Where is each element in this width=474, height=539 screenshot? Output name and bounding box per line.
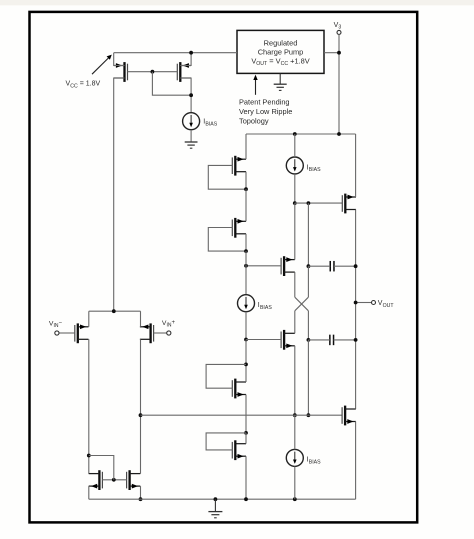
junction: mirror gate link — [112, 478, 116, 482]
junction: C2 / output rail — [354, 338, 358, 342]
wire: V3 riser down to main rail — [338, 34, 340, 134]
callout arrow (patent pending) — [253, 75, 257, 95]
label VIN+ — [162, 320, 176, 329]
svg-text:VCC = 1.8V: VCC = 1.8V — [66, 81, 101, 90]
node VIN- terminal — [55, 331, 59, 335]
wire: Q6 source up to rail — [355, 134, 357, 197]
wire: Q4 node down to I3 — [245, 251, 247, 295]
wire: Q9 source to tail — [140, 311, 142, 327]
junction: ground rail / GND3 — [214, 497, 218, 501]
node V3 terminal — [337, 30, 341, 34]
wire: Q10a drain up to node — [245, 364, 247, 382]
junction: Q7 drain / second-stage gate net — [293, 413, 297, 417]
wire: gate link to Q2 drain — [152, 72, 191, 96]
label IBIAS of I3 — [258, 302, 273, 311]
transistor Q11 (output NMOS) — [342, 406, 356, 426]
wire: Q10a source down — [245, 395, 247, 433]
svg-text:Charge Pump: Charge Pump — [258, 47, 304, 56]
wire: C2 right — [334, 339, 356, 341]
wire: main top rail — [246, 133, 356, 135]
regulated charge pump block U1 — [237, 30, 324, 73]
wire: Q11 source down to ground rail — [355, 422, 357, 500]
wire: Q10b source to ground rail — [245, 456, 247, 499]
current source I1 (IBIAS) — [183, 113, 200, 130]
transistor Q2 (bias mirror PMOS right, diode) — [177, 62, 191, 82]
wire: C2 left — [308, 339, 329, 341]
svg-text:Very Low Ripple: Very Low Ripple — [239, 107, 292, 116]
wire: charge pump output to V3 riser — [324, 52, 339, 54]
label VIN- — [49, 320, 63, 329]
junction: Q9 drain / gate net — [139, 413, 143, 417]
wire: Q3 drain down — [245, 172, 247, 190]
junction: gate line / right drop — [307, 201, 311, 205]
wire: C1 left — [308, 265, 330, 267]
wire: Q12 source to ground rail — [88, 486, 90, 499]
junction: Q13 source on ground rail — [139, 497, 143, 501]
junction: Q5 gate tap — [244, 264, 248, 268]
transistor Q10a (NMOS bias diode upper) — [232, 379, 246, 399]
wire: second-stage gate net — [141, 414, 342, 416]
wire: Q6 drain rail down to Q11 — [355, 210, 357, 409]
junction: I2 / bias gate line — [293, 201, 297, 205]
junction: Q10b drain node — [244, 431, 248, 435]
svg-text:Patent Pending: Patent Pending — [239, 98, 290, 107]
junction: C1 / output rail — [354, 264, 358, 268]
wire: bias gate line to Q6 gate — [295, 202, 343, 204]
junction: Q7 gate tap — [244, 338, 248, 342]
transistor Q5 (cascode PMOS center) — [281, 256, 295, 276]
junction: ground rail / I4 — [293, 497, 297, 501]
current source I4 (IBIAS) — [286, 449, 303, 466]
wire: I1 to ground — [190, 130, 192, 142]
wire: I2 down to gate-line node — [294, 174, 296, 203]
node VOUT terminal — [372, 301, 376, 305]
wire: Q9 gate to VIN+ terminal — [154, 332, 167, 334]
wire: VOUT stub — [356, 302, 372, 304]
wire: Q4 drain down — [245, 234, 247, 251]
label VCC = 1.8V — [66, 81, 101, 90]
page frame — [30, 12, 418, 523]
wire: Q7 gate to bias column — [246, 339, 281, 341]
current source I2 (IBIAS) — [286, 157, 303, 174]
svg-text:VOUT: VOUT — [378, 300, 395, 309]
wire: I4 down to ground rail — [294, 466, 296, 499]
transistor Q8 (input PMOS, VIN-) — [75, 323, 89, 343]
label VOUT — [378, 300, 395, 309]
junction: right drop / C1 tap — [307, 264, 311, 268]
junction: tail / Q1 drain — [112, 309, 116, 313]
junction: Q10a drain node — [244, 363, 248, 367]
svg-text:IBIAS: IBIAS — [307, 457, 322, 466]
wire: Q12 diode loop — [89, 456, 114, 480]
wire: Q10a gate loop over top — [206, 364, 246, 388]
wire: Q5 drain to crossover — [294, 272, 296, 297]
junction: Q3 drain/gate node — [244, 187, 248, 191]
wire: Q10b gate loop over top — [206, 433, 246, 450]
wire: x308 into crossover — [307, 266, 309, 297]
svg-text:IBIAS: IBIAS — [203, 119, 218, 128]
junction: C2 left tap — [307, 338, 311, 342]
label IBIAS of I1 — [203, 119, 218, 128]
ground GND1 (under I1) — [185, 141, 198, 148]
label IBIAS of I2 — [307, 164, 322, 173]
junction: rail / V3 riser — [337, 132, 341, 136]
transistor Q10b (NMOS bias diode lower) — [232, 440, 246, 460]
junction: gate link midpoint — [151, 70, 155, 74]
wire: Q7 source up to crossover — [294, 311, 296, 334]
label V3 — [334, 22, 342, 31]
transistor Q3 (cascode bias PMOS, diode) — [232, 156, 246, 176]
capacitor C1 — [330, 261, 334, 272]
wire: Q1 drain long run to diff tail — [114, 78, 125, 311]
ground GND3 (main) — [208, 499, 222, 518]
wire: VCC rail to charge pump — [114, 52, 237, 54]
wire: I3 down to Q7 gate tap — [245, 312, 247, 340]
transistor Q4 (cascode bias PMOS, diode) — [232, 218, 246, 238]
wire: Q1 source to VCC rail — [114, 53, 125, 66]
wire: crossover left-to-right — [295, 297, 309, 311]
junction: ground rail / Q10b — [244, 497, 248, 501]
wire: Q9 drain down to Q13 — [140, 339, 142, 473]
svg-text:IBIAS: IBIAS — [307, 164, 322, 173]
transistor Q6 (output stage PMOS) — [342, 194, 356, 214]
junction: Q2 drain / gate tie — [189, 93, 193, 97]
svg-text:VOUT = VCC +1.8V: VOUT = VCC +1.8V — [251, 56, 309, 67]
current source I3 (IBIAS) — [238, 295, 255, 312]
wire: right drop x308 — [307, 203, 309, 266]
junction: rail / IBIAS2 — [293, 132, 297, 136]
wire: C2 tap down to gate net — [307, 340, 309, 415]
junction: VOUT tap — [354, 301, 358, 305]
wire: Q2 source to VCC rail — [180, 53, 191, 66]
junction: Q8 drain / Q12 diode tap — [87, 454, 91, 458]
wire: crossover right-to-left — [295, 297, 309, 311]
svg-text:VIN+: VIN+ — [162, 320, 176, 329]
wire: Q3 source up to rail — [245, 134, 247, 159]
label: Patent Pending / Very Low Ripple / Topology — [239, 98, 292, 126]
transistor Q7 (cascode NMOS center) — [281, 330, 295, 350]
wire: Q8 drain down to Q12 — [88, 339, 90, 473]
wire: diff tail bar — [89, 310, 141, 312]
svg-text:VIN−: VIN− — [49, 320, 63, 329]
junction: charge-pump output / V3 — [337, 51, 341, 55]
wire: Q13 source to ground rail — [140, 486, 142, 499]
node VIN+ terminal — [167, 331, 171, 335]
label IBIAS of I4 — [307, 457, 322, 466]
wire: Q4 gate loop — [208, 228, 246, 252]
wire: gate net down to I4 — [294, 415, 296, 449]
junction: Q2 source on VCC rail — [189, 51, 193, 55]
wire: C1 right — [334, 265, 356, 267]
wire: bias column to N3 node — [245, 340, 247, 365]
transistor Q13 (load mirror NMOS) — [127, 470, 141, 490]
svg-text:V3: V3 — [334, 22, 342, 31]
transistor Q9 (input PMOS, VIN+) — [140, 323, 154, 343]
wire: Q8 gate to VIN- terminal — [59, 332, 75, 334]
transistor Q1 (bias mirror PMOS left) — [114, 62, 128, 82]
svg-text:Regulated: Regulated — [264, 39, 298, 48]
capacitor C2 — [330, 335, 334, 346]
junction: C2 drop / gate net — [307, 413, 311, 417]
wire: Q11 drain up to output rail — [355, 408, 357, 410]
wire: Q5 source up to I2 node — [294, 203, 296, 260]
wire: Q12-Q13 gate link — [102, 479, 126, 481]
wire: crossover to C2 tap — [307, 311, 309, 340]
wire: Q8 source to tail — [88, 311, 90, 327]
svg-text:Topology: Topology — [239, 117, 269, 126]
wire: Q1-Q2 gate link — [128, 71, 178, 73]
svg-text:IBIAS: IBIAS — [258, 302, 273, 311]
junction: Q4 drain/gate node — [244, 249, 248, 253]
wire: Q5 gate to bias column — [246, 265, 281, 267]
wire: ground rail — [89, 498, 356, 500]
wire: Q10b drain up stub — [245, 433, 247, 444]
wire: Q7 drain down to gate net — [294, 346, 296, 415]
ground GND2 (charge pump) — [274, 74, 287, 91]
wire: Q2 drain to IBIAS1 — [180, 78, 191, 113]
wire: Q3 gate loop — [208, 165, 246, 189]
wire: rail to I2 — [294, 134, 296, 157]
transistor Q12 (load mirror NMOS, diode) — [89, 470, 103, 490]
wire: Q4 source up to Q3 drain — [245, 189, 247, 221]
VCC arrow pointer — [92, 55, 112, 75]
